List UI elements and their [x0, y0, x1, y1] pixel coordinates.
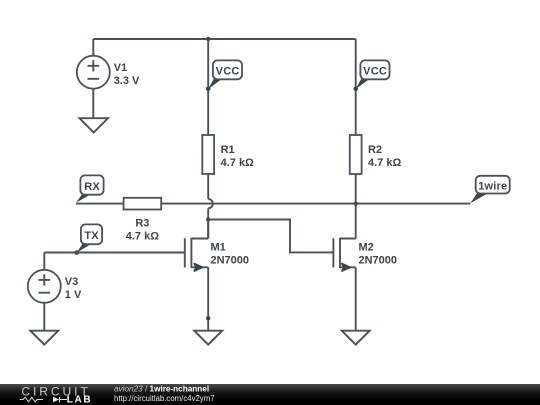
flag RX: [76, 175, 104, 202]
wire hop over RX line: [208, 199, 213, 208]
wire R3 to 1wire flag: [161, 203, 470, 205]
wire RX to R3: [76, 203, 124, 205]
wire M1 drain stub: [207, 220, 209, 239]
svg-text:TX: TX: [84, 230, 99, 242]
svg-text:R1: R1: [221, 144, 235, 156]
wire V1 top stem: [92, 39, 94, 56]
footer info text: [114, 385, 215, 404]
transistor M1: [185, 238, 249, 271]
flag 1wire: [470, 176, 509, 203]
wire hop to M1 drain: [207, 208, 209, 238]
flag VCC node 2: [353, 60, 389, 91]
svg-text:avion23 / 1wire-nchannel: avion23 / 1wire-nchannel: [114, 385, 209, 394]
svg-text:V1: V1: [114, 62, 127, 74]
svg-text:R3: R3: [135, 217, 149, 229]
svg-text:R2: R2: [368, 144, 382, 156]
ground below V3: [30, 331, 58, 345]
svg-text:VCC: VCC: [216, 65, 240, 77]
svg-text:http://circuitlab.com/c4v2ym7: http://circuitlab.com/c4v2ym7: [114, 394, 215, 403]
svg-text:2N7000: 2N7000: [359, 254, 398, 266]
ground below M2: [342, 331, 370, 345]
resistor R1: [202, 135, 254, 174]
svg-text:V3: V3: [65, 276, 78, 288]
svg-text:VCC: VCC: [363, 65, 387, 77]
svg-text:RX: RX: [84, 181, 100, 193]
svg-text:LAB: LAB: [67, 395, 92, 405]
node M1 drain junction: [206, 217, 210, 221]
node junction RX line at M2 drain column: [354, 201, 358, 205]
wire V1 bottom stem: [92, 89, 94, 119]
svg-text:2N7000: 2N7000: [211, 254, 250, 266]
node on M1 source wire: [206, 316, 210, 320]
wire R1 column VCC stem: [207, 39, 209, 135]
transistor M2: [333, 238, 397, 271]
wire M1 drain to M2 gate: [208, 220, 333, 253]
voltage source V1: [77, 56, 140, 89]
svg-text:4.7 kΩ: 4.7 kΩ: [221, 157, 254, 169]
node junction top rail at R1 column: [206, 37, 210, 41]
wire top rail V1 to R2 column: [93, 38, 355, 40]
resistor R2: [350, 135, 402, 174]
svg-text:3.3 V: 3.3 V: [114, 75, 140, 87]
wire V3 to M1 gate: [44, 252, 185, 254]
flag TX: [74, 224, 102, 255]
svg-text:1wire: 1wire: [478, 180, 507, 192]
svg-text:4.7 kΩ: 4.7 kΩ: [126, 230, 159, 242]
svg-text:1 V: 1 V: [65, 289, 82, 301]
wire V3 bottom stem: [43, 303, 45, 331]
flag VCC node 1: [206, 60, 242, 91]
svg-text:4.7 kΩ: 4.7 kΩ: [368, 157, 401, 169]
resistor R3: [124, 198, 162, 243]
wire R1 bottom to hop: [207, 174, 209, 199]
wire R2 bottom to M2 drain: [355, 174, 357, 239]
CircuitLab logo: [20, 385, 92, 405]
wire R2 column top: [355, 39, 357, 135]
svg-text:M1: M1: [211, 242, 226, 254]
ground below M1: [194, 331, 222, 345]
footer bar: [0, 384, 540, 405]
svg-text:M2: M2: [359, 242, 374, 254]
ground below V1: [80, 118, 109, 132]
wire V3 top stem: [43, 253, 45, 270]
wire M2 source to ground: [355, 267, 357, 330]
voltage source V3: [28, 270, 82, 303]
wire M1 source to ground: [207, 267, 209, 330]
